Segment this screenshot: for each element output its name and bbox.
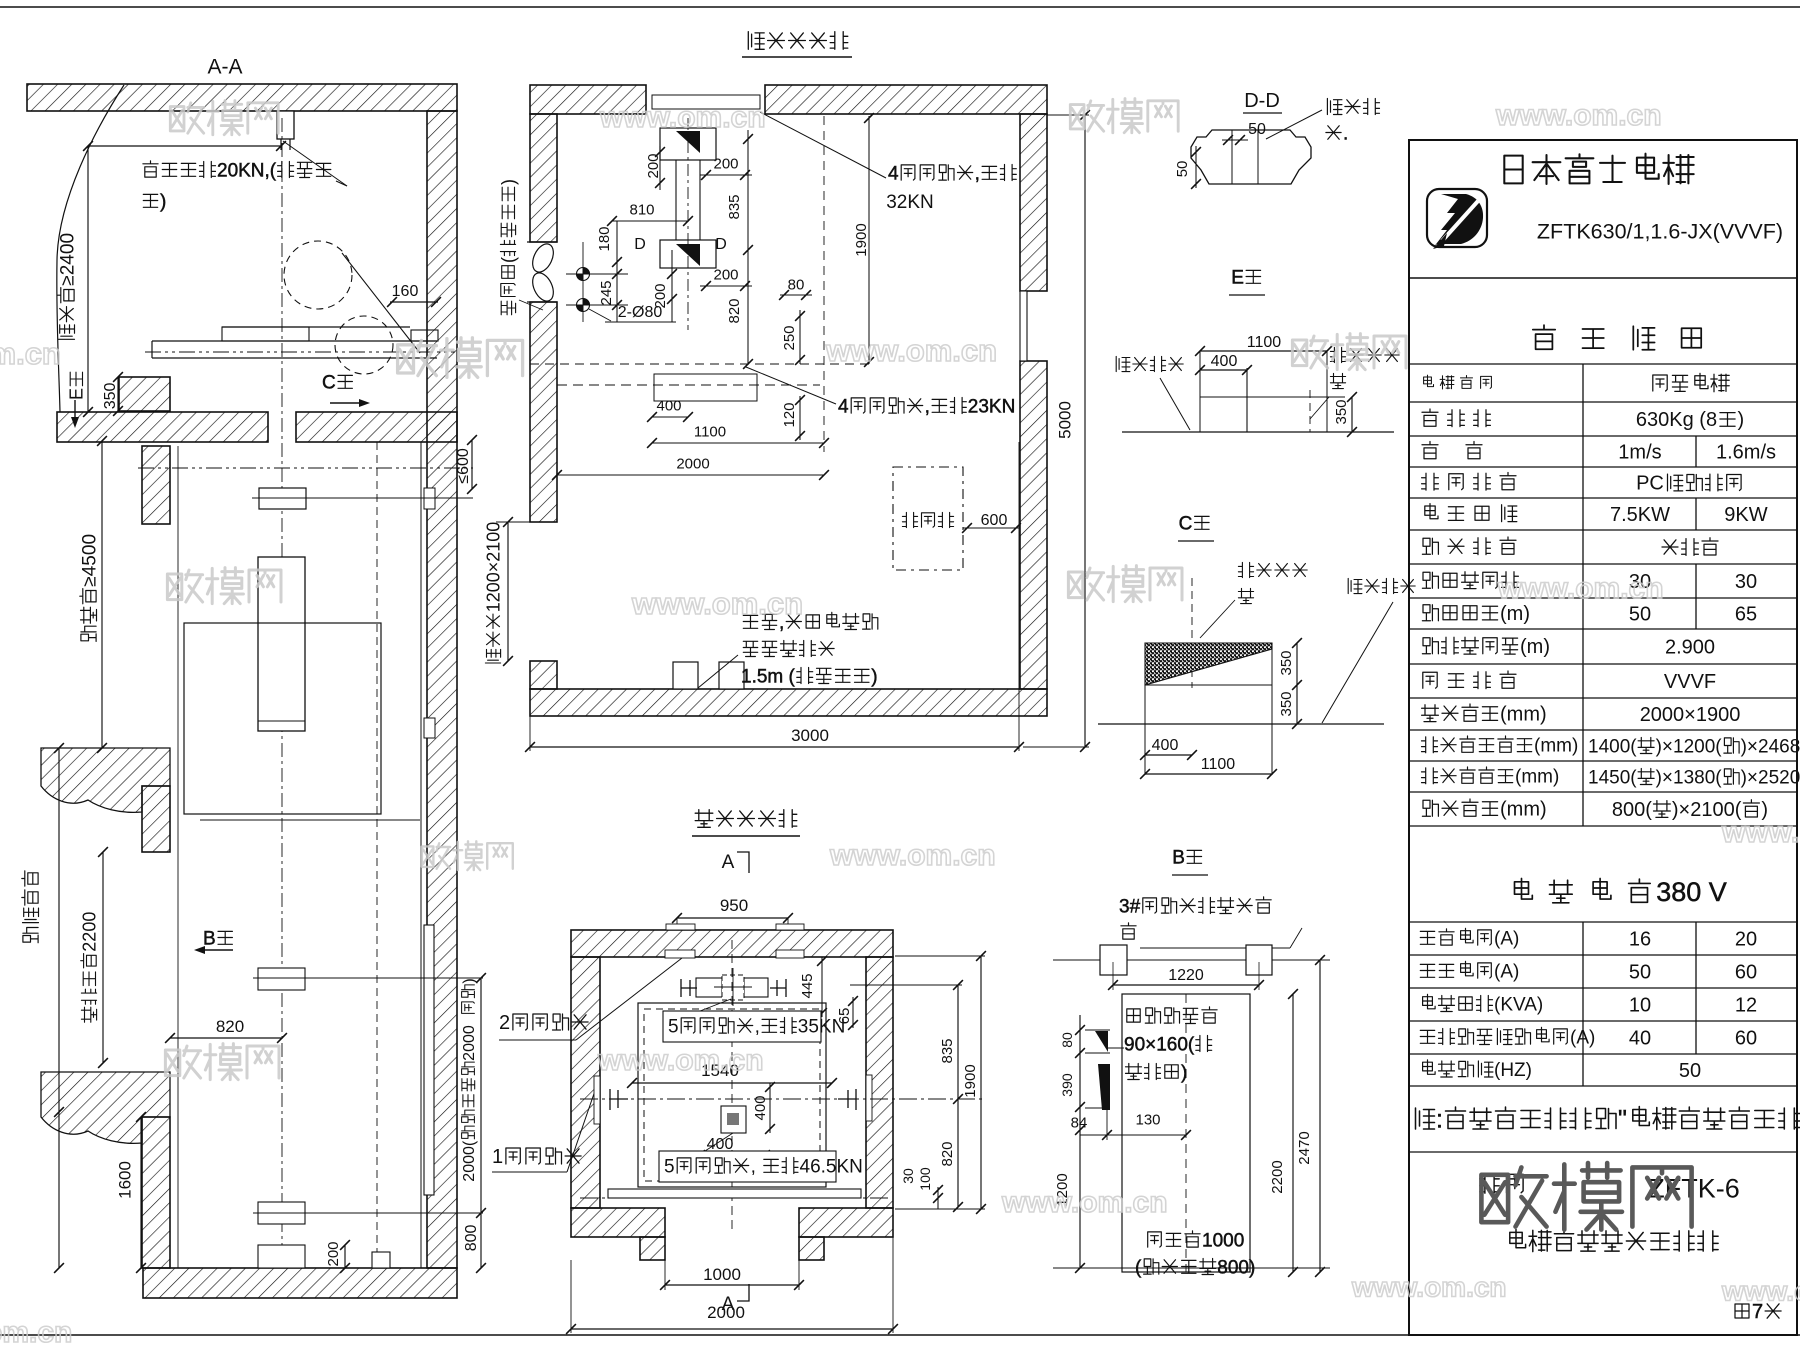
C view dim 350 350 xyxy=(1296,643,1298,724)
table heading 电源电压380V xyxy=(1515,879,1533,900)
svg-text:(m): (m) xyxy=(1520,636,1550,658)
svg-text:C: C xyxy=(322,372,336,393)
B view top line xyxy=(1053,959,1330,961)
rail bracket upper xyxy=(258,968,305,990)
svg-text:50: 50 xyxy=(1629,962,1651,984)
svg-text:VVVF: VVVF xyxy=(1664,671,1716,693)
page bottom border xyxy=(0,1334,1800,1336)
control panel xyxy=(893,467,963,570)
dim 5000 xyxy=(1084,115,1086,747)
svg-text:2000: 2000 xyxy=(707,1303,745,1322)
svg-text:60: 60 xyxy=(1735,962,1757,984)
drawing name xyxy=(1510,1230,1526,1248)
svg-text:200: 200 xyxy=(645,153,662,178)
B view right dims xyxy=(1292,994,1294,1272)
dim 建筑留孔 2200 xyxy=(102,852,104,1063)
C view car centerline label xyxy=(1238,562,1253,577)
E view label 机房楼面 xyxy=(1116,356,1130,371)
shaft plan right wall xyxy=(866,957,893,1208)
dims below machine xyxy=(781,402,798,427)
C view dim 400 xyxy=(1145,754,1192,756)
svg-text:130: 130 xyxy=(1135,1111,1160,1128)
C view dim 1100 xyxy=(1145,773,1272,775)
guide rail T right xyxy=(855,1089,857,1110)
svg-text:820: 820 xyxy=(216,1017,244,1036)
svg-text:80: 80 xyxy=(1059,1032,1075,1048)
machine room left wall upper xyxy=(530,114,557,242)
svg-text:≤600: ≤600 xyxy=(455,448,472,484)
svg-text:100: 100 xyxy=(917,1167,933,1191)
machine centerline dashdot xyxy=(145,351,455,353)
dim 835 820 right xyxy=(957,985,959,1207)
svg-text:200: 200 xyxy=(713,266,738,283)
svg-text:www.om.cn: www.om.cn xyxy=(1001,1186,1168,1219)
svg-text:≥4500: ≥4500 xyxy=(79,534,100,587)
page top border xyxy=(0,6,1800,8)
shaft plan left wall xyxy=(571,957,600,1208)
machine room left wall stub xyxy=(530,661,557,689)
svg-text:)×1380(: )×1380( xyxy=(1656,767,1723,788)
svg-text:(KVA): (KVA) xyxy=(1494,994,1543,1015)
svg-text:w.om.cn: w.om.cn xyxy=(0,336,61,371)
svg-text:600: 600 xyxy=(981,512,1008,529)
svg-text:(HZ): (HZ) xyxy=(1494,1060,1532,1081)
floor upstand xyxy=(119,377,170,411)
svg-text:7.5KW: 7.5KW xyxy=(1610,504,1670,526)
dim 800 xyxy=(480,1213,482,1268)
ventilation fan symbol xyxy=(529,241,558,276)
machine room right wall lower xyxy=(1020,361,1047,689)
table row 载重量 xyxy=(1422,409,1438,426)
label 5号预埋件 35KN box xyxy=(663,1011,821,1042)
svg-text:2.900: 2.900 xyxy=(1665,637,1715,659)
svg-text:9KW: 9KW xyxy=(1724,504,1767,526)
svg-text:(A): (A) xyxy=(1570,1027,1595,1048)
svg-text:www.o: www.o xyxy=(1721,1275,1800,1306)
svg-text:(m): (m) xyxy=(1500,603,1530,625)
svg-text:1220: 1220 xyxy=(1168,967,1204,984)
svg-text:950: 950 xyxy=(720,896,748,915)
svg-text:400: 400 xyxy=(1152,737,1179,754)
svg-text:835: 835 xyxy=(939,1038,956,1063)
svg-text:60: 60 xyxy=(1735,1028,1757,1050)
svg-text:4: 4 xyxy=(888,163,899,184)
svg-text:)×1200(: )×1200( xyxy=(1656,736,1723,757)
svg-text:445: 445 xyxy=(799,973,816,998)
machine room floor slab right xyxy=(296,412,457,442)
machine bed lines xyxy=(222,326,410,328)
top wall embed plates xyxy=(665,950,695,958)
svg-text:200: 200 xyxy=(713,155,738,172)
machine room floor slab left xyxy=(57,412,268,442)
right wall notch lower xyxy=(424,718,435,738)
svg-text:30: 30 xyxy=(900,1168,916,1184)
E view car centerline label xyxy=(1330,347,1345,362)
svg-text:om.cn: om.cn xyxy=(0,1316,72,1347)
traction machine lower pad xyxy=(660,240,716,268)
label 5号预埋件 46.5KN xyxy=(659,1151,836,1182)
D-D dim 50 left xyxy=(1174,161,1191,178)
car outline dashed xyxy=(644,1009,820,1181)
rope hitch plate xyxy=(259,488,306,509)
car centerline dashed xyxy=(530,363,870,365)
break line curve xyxy=(57,85,124,412)
svg-text:): ) xyxy=(499,179,519,185)
label 4号预埋件 23KN xyxy=(746,367,836,404)
svg-text:www.om.cn: www.om.cn xyxy=(597,1044,764,1077)
table row 起动电流(A) xyxy=(1420,964,1434,977)
svg-text:820: 820 xyxy=(726,298,743,323)
svg-text::: : xyxy=(1436,1106,1443,1134)
car centerline xyxy=(281,118,283,1268)
right wall embed plate xyxy=(866,1075,872,1121)
power switch boxes xyxy=(673,662,698,689)
D-D label 机房楼面 xyxy=(1327,99,1342,115)
machine room door dim 1200x2100 xyxy=(484,522,504,663)
svg-text:50: 50 xyxy=(1174,161,1191,178)
car outline xyxy=(184,623,381,814)
svg-text:400: 400 xyxy=(752,1095,769,1120)
svg-text:350: 350 xyxy=(1333,399,1350,424)
svg-text:www.om.cn: www.om.cn xyxy=(825,333,997,368)
svg-text:": " xyxy=(1618,1106,1627,1134)
svg-text:20: 20 xyxy=(1735,929,1757,951)
dim 600 top xyxy=(455,448,472,484)
svg-text:820: 820 xyxy=(939,1141,956,1166)
svg-text:2000×1900: 2000×1900 xyxy=(1640,704,1741,726)
guide rail on right wall xyxy=(424,925,434,1195)
svg-text:46.5KN: 46.5KN xyxy=(800,1156,863,1177)
svg-text:400: 400 xyxy=(707,1136,734,1153)
table row 电源容量(KVA) xyxy=(1423,994,1436,1008)
svg-text:www.om.cn: www.om.cn xyxy=(1495,99,1662,132)
svg-text:www.om.cn: www.om.cn xyxy=(631,586,803,621)
svg-text:180: 180 xyxy=(596,226,613,251)
svg-text:630Kg (8: 630Kg (8 xyxy=(1636,409,1717,431)
svg-text:(: ( xyxy=(499,257,519,263)
beam end T left xyxy=(680,979,682,997)
svg-text:400: 400 xyxy=(1211,353,1238,370)
svg-text:A: A xyxy=(722,852,735,873)
svg-text:800(: 800( xyxy=(1612,799,1652,821)
svg-text:): ) xyxy=(871,666,877,687)
C view lines xyxy=(1144,643,1146,775)
svg-text:200: 200 xyxy=(652,283,669,308)
counterweight xyxy=(258,557,305,731)
big dark watermark 欧模网 xyxy=(1481,1167,1546,1226)
svg-text:50: 50 xyxy=(1248,121,1266,138)
E view dim 1100 xyxy=(1200,350,1327,352)
E view floor line xyxy=(1122,431,1394,433)
company name xyxy=(1504,156,1522,184)
B view left dims xyxy=(1079,1015,1081,1268)
svg-text:(A): (A) xyxy=(1494,961,1519,982)
top wall opening lintel xyxy=(652,95,760,109)
svg-text:350: 350 xyxy=(102,383,119,410)
svg-text:D-D: D-D xyxy=(1244,90,1280,112)
svg-text:)×2520(: )×2520( xyxy=(1741,767,1800,788)
guide rail T left xyxy=(609,1089,611,1110)
title block 图号 ZFTK-6 xyxy=(1480,1174,1499,1193)
hook leader xyxy=(283,141,347,186)
svg-text:≥2400: ≥2400 xyxy=(57,233,78,286)
svg-text:)×2468(: )×2468( xyxy=(1741,736,1800,757)
svg-text:16: 16 xyxy=(1629,929,1651,951)
svg-text:E: E xyxy=(1231,267,1244,288)
holes 2-Ø80 xyxy=(566,273,628,275)
C view speckled slab wedge xyxy=(1145,643,1272,685)
dim 3000 xyxy=(530,746,1019,748)
C view label 机房楼面 xyxy=(1348,578,1362,593)
label 排风扇 xyxy=(499,179,519,315)
label 吊钩承重20KN xyxy=(143,161,158,177)
table row 最大停站数 xyxy=(1422,572,1438,588)
svg-text:1200×2100: 1200×2100 xyxy=(484,522,504,613)
B view dim 1220 xyxy=(1113,984,1259,986)
E view dim 400 xyxy=(1200,369,1247,371)
machine sheave circle xyxy=(284,241,352,309)
dim 400 vert xyxy=(769,1083,771,1133)
svg-text:3000: 3000 xyxy=(791,726,829,745)
dim 2000 rail pitch xyxy=(480,978,482,1213)
svg-text:1400(: 1400( xyxy=(1588,736,1637,757)
page number xyxy=(1735,1304,1749,1318)
svg-text:4: 4 xyxy=(838,396,849,417)
door jamb stub left xyxy=(640,1237,665,1260)
machine room right wall upper xyxy=(1020,114,1047,291)
dashed opening lower xyxy=(654,374,757,401)
spec table grid xyxy=(1409,363,1797,365)
svg-text:www.om.cn: www.om.cn xyxy=(599,101,766,134)
svg-text:): ) xyxy=(160,191,166,212)
shaft dashed line right xyxy=(376,442,378,1268)
table row 最小层站距(m) xyxy=(1422,638,1438,654)
table heading 技术说明 xyxy=(1533,325,1555,349)
rail bracket lower xyxy=(258,1202,305,1224)
pit floor slab xyxy=(143,1268,457,1298)
shaft centerlines xyxy=(731,940,733,1230)
dims machine room inner xyxy=(645,153,662,178)
left shaft wall mid xyxy=(142,786,170,852)
svg-text:1: 1 xyxy=(492,1146,503,1168)
svg-text:2000: 2000 xyxy=(461,1025,478,1061)
table row 电梯型号 xyxy=(1424,375,1434,386)
table row 拖动方式 xyxy=(1423,672,1437,688)
svg-text:80: 80 xyxy=(788,276,805,293)
beam end T right xyxy=(785,979,787,997)
svg-text:,: , xyxy=(755,1016,760,1037)
company logo xyxy=(1427,189,1487,247)
B view door rect xyxy=(1122,994,1250,1272)
svg-text:www.om.cn: www.om.cn xyxy=(829,839,996,872)
rope line xyxy=(342,253,420,353)
dim hook horizontal xyxy=(88,145,281,147)
svg-text:,: , xyxy=(751,1156,756,1177)
svg-text:B: B xyxy=(1172,847,1185,868)
traction machine upper pad xyxy=(660,128,716,160)
table row 电源频率(HZ) xyxy=(1423,1060,1436,1074)
svg-text:1450(: 1450( xyxy=(1588,767,1637,788)
dim 445 xyxy=(821,957,823,1017)
B view wall marks xyxy=(1095,1031,1108,1052)
car sill plate xyxy=(608,1189,861,1198)
dim 65 xyxy=(852,997,854,1028)
svg-text:www.om.cn: www.om.cn xyxy=(1351,1271,1507,1302)
svg-text:1100: 1100 xyxy=(694,423,726,440)
machine beam assembly xyxy=(696,978,722,997)
center rope square xyxy=(721,1106,746,1133)
car outline solid xyxy=(638,1003,826,1187)
svg-text:2470: 2470 xyxy=(1296,1131,1313,1164)
svg-text:): ) xyxy=(1181,1062,1187,1083)
svg-text:20KN,(: 20KN,( xyxy=(217,160,277,181)
dim 1600 xyxy=(140,1117,142,1268)
label 4号预埋件 32KN xyxy=(760,112,886,178)
machine room bottom wall xyxy=(530,689,1047,716)
svg-text:2200: 2200 xyxy=(80,912,100,952)
svg-text:(mm): (mm) xyxy=(1500,798,1547,820)
machine room top wall right xyxy=(765,85,1047,114)
table outer border xyxy=(1409,140,1797,1335)
svg-text:2000: 2000 xyxy=(676,455,709,472)
svg-text:3#: 3# xyxy=(1119,896,1141,917)
door jamb stub right xyxy=(799,1237,824,1260)
shaft plan top wall xyxy=(571,930,893,957)
svg-text:5000: 5000 xyxy=(1056,401,1075,439)
svg-text:ZFTK630/1,1.6-JX(VVVF): ZFTK630/1,1.6-JX(VVVF) xyxy=(1537,220,1783,244)
dim 机房高 2400 xyxy=(87,146,89,412)
svg-text:PC: PC xyxy=(1636,473,1664,495)
svg-text:www.om.cn: www.om.cn xyxy=(1497,572,1664,605)
D-D bracket section xyxy=(1191,130,1311,184)
svg-text:835: 835 xyxy=(726,194,743,219)
machine room plan title xyxy=(748,32,764,50)
table row 轿厢外尺寸(mm) xyxy=(1422,768,1438,784)
E view dim 350 xyxy=(1351,397,1353,432)
svg-text:380 V: 380 V xyxy=(1656,877,1727,907)
svg-text:1.5m (: 1.5m ( xyxy=(741,666,796,687)
table row 开门尺寸(mm) xyxy=(1422,800,1438,816)
table row 最大行程(m) xyxy=(1422,605,1438,621)
table row 轿厢内净尺寸(mm) xyxy=(1422,737,1438,753)
right wall notch upper xyxy=(424,488,435,509)
svg-text:390: 390 xyxy=(1059,1073,1075,1097)
table row 空气开关额定电流(A) xyxy=(1420,1030,1434,1043)
svg-text:35KN: 35KN xyxy=(798,1016,846,1037)
shaft plan bottom wall left xyxy=(571,1208,665,1237)
svg-text:1000: 1000 xyxy=(703,1265,741,1284)
svg-text:1.6m/s: 1.6m/s xyxy=(1716,442,1776,464)
svg-text:350: 350 xyxy=(1278,691,1295,716)
machine room top wall left xyxy=(530,85,646,114)
svg-text:350: 350 xyxy=(1278,650,1295,675)
B view embed boxes xyxy=(1100,945,1127,975)
svg-text:2: 2 xyxy=(499,1012,510,1034)
left rail line xyxy=(177,446,179,1268)
table row 开门方式 xyxy=(1422,538,1438,554)
svg-text:32KN: 32KN xyxy=(886,192,934,213)
note row xyxy=(1416,1108,1435,1129)
svg-text:5: 5 xyxy=(664,1156,675,1177)
svg-text:200: 200 xyxy=(325,1241,342,1266)
shaft plan bottom wall right xyxy=(799,1208,893,1237)
shaft right wall xyxy=(427,111,457,1268)
svg-text:(mm): (mm) xyxy=(1534,736,1578,757)
lower landing slab corbel xyxy=(41,1072,170,1143)
svg-text:120: 120 xyxy=(781,402,798,427)
buffer base xyxy=(258,1245,305,1268)
dim 1900 right xyxy=(980,956,982,1209)
svg-text:10: 10 xyxy=(1629,995,1651,1017)
B view bottom labels xyxy=(1148,1232,1162,1247)
svg-text:1900: 1900 xyxy=(853,223,870,256)
dims 30 100 xyxy=(900,1168,916,1184)
svg-text:2200: 2200 xyxy=(1269,1160,1286,1193)
svg-text:): ) xyxy=(1738,409,1745,431)
svg-text:250: 250 xyxy=(781,325,798,350)
svg-text:(A): (A) xyxy=(1494,928,1519,949)
svg-text:ZFTK-6: ZFTK-6 xyxy=(1648,1174,1740,1204)
table row 井道尺寸(mm) xyxy=(1422,705,1439,722)
dim 顶层高 4500 xyxy=(101,441,103,748)
deflector sheave circle xyxy=(335,316,393,374)
machine room left wall lower xyxy=(530,302,557,522)
A-A ceiling slab xyxy=(27,84,457,111)
svg-text:90×160(: 90×160( xyxy=(1124,1034,1195,1055)
label power switch note xyxy=(743,615,757,628)
svg-text:5: 5 xyxy=(668,1016,679,1037)
svg-text:23KN: 23KN xyxy=(968,396,1016,417)
left shaft wall upper xyxy=(142,446,170,524)
left shaft wall lower xyxy=(142,1117,170,1268)
svg-text:,: , xyxy=(925,396,930,417)
left wall embed plate xyxy=(594,1076,600,1124)
dim 350 upstand xyxy=(102,383,119,410)
svg-text:2000(: 2000( xyxy=(461,1140,478,1182)
svg-text:1000: 1000 xyxy=(1202,1230,1244,1251)
hoisting hook xyxy=(277,111,294,139)
svg-text:D: D xyxy=(634,236,646,253)
svg-text:): ) xyxy=(461,978,478,983)
svg-text:12: 12 xyxy=(1735,995,1757,1017)
svg-text:245: 245 xyxy=(598,280,615,305)
top landing slab corbel xyxy=(41,748,170,812)
svg-text:1100: 1100 xyxy=(1201,756,1236,773)
svg-text:.: . xyxy=(1343,123,1348,144)
svg-text:30: 30 xyxy=(1735,571,1757,593)
svg-text:D: D xyxy=(715,236,727,253)
svg-text:65: 65 xyxy=(1735,604,1757,626)
svg-text:84: 84 xyxy=(1071,1114,1088,1131)
table row 电动功率 xyxy=(1425,504,1438,519)
svg-text:50: 50 xyxy=(1679,1060,1701,1082)
svg-text:1m/s: 1m/s xyxy=(1618,442,1661,464)
dim 200 pit xyxy=(344,1245,346,1268)
machine centerline vertical xyxy=(687,118,689,330)
table row 满载电流(A) xyxy=(1420,931,1434,944)
right wall inner face xyxy=(420,442,422,1268)
svg-text:810: 810 xyxy=(629,201,654,218)
svg-text:50: 50 xyxy=(1629,604,1651,626)
svg-text:1600: 1600 xyxy=(116,1161,135,1199)
shaft plan title xyxy=(695,810,713,828)
table row 控制方式 xyxy=(1422,473,1439,490)
svg-text:www.: www. xyxy=(1721,816,1799,849)
svg-text:E: E xyxy=(67,388,87,400)
svg-text:(mm): (mm) xyxy=(1515,767,1559,788)
rope centerline dashdotdot xyxy=(138,467,473,469)
svg-text:A-A: A-A xyxy=(207,56,242,79)
